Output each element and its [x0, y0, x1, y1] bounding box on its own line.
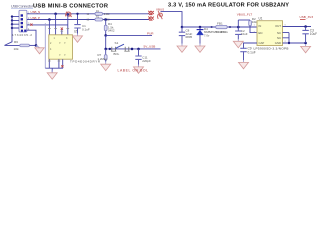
svg-text:10uF: 10uF — [241, 32, 248, 36]
svg-text:USB_P: USB_P — [31, 16, 41, 20]
wire NC NC GND to bus — [283, 33, 290, 43]
wire switch row — [106, 48, 161, 50]
pin ticks — [48, 28, 69, 30]
wire VBUS rail — [182, 26, 257, 28]
node C11 tap — [131, 48, 134, 51]
wire U5 left side rail — [44, 23, 46, 68]
node rail corner — [181, 26, 184, 29]
wire U5 pin to L2 — [48, 20, 50, 35]
capacitor C2 — [237, 26, 240, 29]
svg-text:IN: IN — [259, 24, 262, 28]
ground — [195, 44, 205, 53]
ground — [101, 62, 111, 71]
resistor R4 — [104, 18, 107, 21]
no-ERC X — [61, 65, 63, 67]
wire gnd bus — [289, 33, 306, 43]
wire USB_N row L1 after R1 — [103, 13, 150, 15]
svg-text:S1: S1 — [115, 41, 119, 45]
ground — [239, 60, 249, 69]
wire pin3 row L3 — [27, 24, 68, 26]
svg-text:USB Connector: USB Connector — [11, 5, 34, 9]
ESD device U5 — [49, 35, 73, 59]
node shield junctions — [11, 15, 13, 17]
TVS diode D4 — [199, 26, 202, 29]
svg-text:0.1uF: 0.1uF — [248, 50, 256, 54]
svg-text:10k: 10k — [14, 47, 19, 51]
ground — [36, 46, 40, 48]
resistor R1 — [95, 12, 103, 15]
svg-text:7.0v: 7.0v — [204, 34, 210, 38]
svg-text:10k: 10k — [252, 20, 257, 24]
wire U5 pin to L1 — [55, 14, 57, 35]
svg-text:VBUS: VBUS — [156, 7, 164, 11]
svg-text:USB_N: USB_N — [31, 10, 41, 14]
capacitor C1 — [77, 14, 79, 34]
resistor R7 — [105, 49, 107, 55]
capacitor C3 — [305, 27, 307, 44]
node out cap — [304, 25, 307, 28]
svg-text:1: 1 — [254, 25, 256, 27]
svg-text:3.3 V, 150 mA REGULATOR FOR US: 3.3 V, 150 mA REGULATOR FOR USB2ANY — [168, 3, 289, 9]
svg-text:U1: U1 — [259, 16, 263, 20]
ground — [233, 39, 243, 48]
svg-text:LP5900SD-3.3/NOPB: LP5900SD-3.3/NOPB — [254, 47, 289, 51]
node L1 to U5 tap — [54, 13, 57, 16]
svg-text:2402: 2402 — [104, 12, 110, 16]
svg-text:OUT: OUT — [275, 24, 281, 28]
svg-text:1734035-2: 1734035-2 — [12, 33, 32, 37]
net flag USB_P end — [148, 16, 154, 20]
wire CAP pin — [244, 43, 258, 60]
svg-text:NC: NC — [277, 36, 281, 40]
wire R2 to EN — [250, 26, 257, 33]
capacitor C8 — [181, 27, 183, 44]
net flag USB_N end — [148, 11, 154, 15]
ground — [73, 34, 83, 43]
svg-text:TPD4E004DRYR: TPD4E004DRYR — [70, 60, 101, 64]
ground — [47, 70, 57, 79]
svg-text:220pF: 220pF — [142, 59, 151, 63]
wire VBUS to rail — [161, 12, 183, 27]
svg-text:EN: EN — [259, 31, 263, 35]
svg-text:0805: 0805 — [186, 35, 193, 39]
svg-text:10uF: 10uF — [310, 32, 317, 36]
no-ERC X at U5 pin stub — [61, 30, 63, 35]
svg-text:BOL: BOL — [114, 52, 120, 56]
wire U5 pin3 down — [67, 14, 69, 35]
svg-text:60 ohm: 60 ohm — [216, 30, 227, 34]
svg-text:5V_USB: 5V_USB — [144, 45, 156, 49]
wire stem — [51, 68, 53, 72]
U5 bottom pins — [49, 59, 62, 64]
svg-text:GND: GND — [275, 41, 281, 45]
svg-text:0402: 0402 — [108, 29, 115, 33]
shield pins left — [12, 17, 19, 28]
wire pin5 GND down — [27, 30, 36, 45]
wire USB_N row L1 from pin1 — [27, 13, 95, 15]
net flag VBUS (swirl) — [158, 11, 163, 19]
wire column to switch row — [105, 35, 107, 49]
no-connect X pin4 — [30, 24, 32, 26]
regulator U1 — [257, 21, 283, 46]
svg-text:R6: R6 — [14, 40, 18, 44]
wire VBUS_FLT — [238, 19, 250, 21]
wire OUT — [283, 26, 312, 28]
svg-text:0.1uF: 0.1uF — [82, 27, 90, 31]
wire U5 gnd bracket — [45, 64, 63, 68]
wire USB_P row L2 from pin2 — [27, 19, 150, 21]
node PUR — [104, 34, 107, 37]
power flag (pink swirl) — [66, 12, 72, 17]
svg-text:CAP: CAP — [259, 41, 265, 45]
svg-text:PUR: PUR — [147, 32, 154, 36]
capacitor C9 — [240, 48, 246, 51]
wire R6 to gnd node — [29, 44, 36, 46]
svg-text:NC: NC — [277, 31, 281, 35]
node R6 gnd junction — [35, 44, 38, 47]
resistor R2 (EN pull-up) — [249, 21, 252, 26]
node L2 to U5 tap — [48, 18, 51, 21]
svg-text:VBUS_FLT: VBUS_FLT — [237, 13, 253, 17]
wire shield down — [5, 17, 21, 46]
ground — [177, 44, 187, 53]
capacitor C11 — [138, 49, 140, 65]
connector pins — [21, 14, 27, 31]
svg-text:USB_3V3: USB_3V3 — [300, 15, 314, 19]
resistor R2 — [95, 18, 103, 21]
node flag tap — [67, 13, 70, 16]
ground — [134, 65, 144, 74]
pin numbers — [28, 12, 30, 30]
svg-text:USB MINI-B CONNECTOR: USB MINI-B CONNECTOR — [33, 3, 108, 9]
ground — [301, 44, 311, 53]
wire PUR — [106, 34, 152, 36]
svg-text:LABEL ON BOL: LABEL ON BOL — [118, 69, 149, 73]
connector J1 body — [19, 10, 27, 32]
svg-text:1.2Meg: 1.2Meg — [98, 57, 108, 61]
